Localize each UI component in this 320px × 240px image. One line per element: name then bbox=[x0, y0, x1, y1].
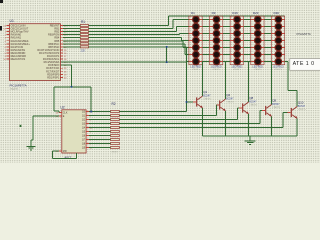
svg-text:Q9: Q9 bbox=[272, 99, 276, 103]
svg-text:<TEXT>: <TEXT> bbox=[233, 68, 242, 71]
svg-text:<TEXT>: <TEXT> bbox=[249, 103, 258, 106]
svg-text:LED-RED: LED-RED bbox=[273, 65, 284, 68]
svg-text:R1: R1 bbox=[81, 20, 85, 24]
text overlay ATE 10 bbox=[290, 59, 320, 71]
wire R1 to LED matrix staircase (8 nets) bbox=[89, 16, 187, 62]
svg-text:LED-RED: LED-RED bbox=[191, 65, 202, 68]
wire U2 E pin to ground bbox=[31, 116, 59, 147]
U1 right pins with pin numbers bbox=[37, 25, 67, 80]
svg-text:D1: D1 bbox=[191, 11, 195, 15]
transistor Q9 BC547 NPN bbox=[262, 99, 281, 117]
wire U1 port B pins to R1 bbox=[63, 26, 80, 47]
transistor Q10 BC547 NPN bbox=[288, 101, 307, 119]
svg-text:<TEXT>: <TEXT> bbox=[226, 100, 235, 103]
IC U1 PIC16F877A microcontroller bbox=[10, 19, 61, 91]
stray wire stub bbox=[20, 125, 22, 127]
svg-text:<TEXT>: <TEXT> bbox=[111, 151, 120, 154]
wire top bus over LED columns bbox=[169, 15, 285, 17]
svg-text:Q1: Q1 bbox=[203, 90, 207, 94]
wire U1 RC5 pin to U2 CLK (zigzag) and R2 tap bbox=[54, 65, 91, 112]
svg-text:LED-RED: LED-RED bbox=[211, 65, 222, 68]
wire LED column cathodes down to transistor collectors bbox=[202, 62, 297, 107]
svg-text:PIC16F877A: PIC16F877A bbox=[10, 84, 27, 88]
transistor Q2 BC547 NPN bbox=[216, 93, 235, 111]
svg-text:<TEXT>: <TEXT> bbox=[272, 106, 281, 109]
wire LED row buses bbox=[173, 20, 271, 62]
svg-text:Q10: Q10 bbox=[298, 101, 304, 105]
LED column D9 (7 red LEDs) bbox=[210, 11, 223, 71]
svg-text:BC547: BC547 bbox=[272, 103, 280, 106]
U1 left pins with pin numbers bbox=[3, 25, 30, 62]
svg-text:D23: D23 bbox=[253, 11, 259, 15]
LED column D30 (7 red LEDs) bbox=[271, 11, 284, 71]
wire R2 rails to transistor bases bbox=[119, 102, 287, 128]
svg-text:BC547: BC547 bbox=[203, 94, 211, 97]
svg-text:<TEXT>: <TEXT> bbox=[192, 68, 201, 71]
svg-text:Q8: Q8 bbox=[249, 96, 253, 100]
svg-text:D16: D16 bbox=[232, 11, 238, 15]
svg-text:R2: R2 bbox=[112, 102, 116, 106]
resistor pack R2 (10 resistors) bbox=[111, 102, 120, 153]
svg-text:ATE 1 0: ATE 1 0 bbox=[293, 61, 315, 67]
svg-text:BC547: BC547 bbox=[298, 105, 306, 108]
U2 left pins CLK, E, MR bbox=[56, 112, 68, 153]
svg-text:PISAVRITA: PISAVRITA bbox=[297, 32, 311, 36]
svg-text:<TEXT>: <TEXT> bbox=[10, 88, 20, 91]
svg-text:RE2/AN7/CS: RE2/AN7/CS bbox=[11, 58, 26, 61]
svg-text:<TEXT>: <TEXT> bbox=[203, 97, 212, 100]
transistor Q8 BC547 NPN bbox=[239, 96, 258, 114]
U2 right pins Q0-Q9 bbox=[82, 111, 93, 150]
ground bbox=[245, 141, 256, 145]
LED column D16 (7 red LEDs) bbox=[230, 11, 243, 71]
svg-text:<TEXT>: <TEXT> bbox=[212, 68, 221, 71]
svg-text:<TEXT>: <TEXT> bbox=[253, 68, 262, 71]
junction dots bbox=[71, 46, 188, 113]
wire U1 RC4 pin long net to Q1 base with tap to R1 net bbox=[61, 47, 187, 112]
svg-text:MR: MR bbox=[63, 150, 67, 153]
svg-text:220: 220 bbox=[81, 49, 86, 53]
screen corner marks bbox=[0, 0, 3, 31]
transistor Q1 BC547 NPN bbox=[193, 90, 212, 108]
ground bbox=[27, 146, 36, 149]
svg-text:<TEXT>: <TEXT> bbox=[274, 68, 283, 71]
LED column D1 (7 red LEDs) bbox=[189, 11, 202, 71]
svg-text:LED-RED: LED-RED bbox=[252, 65, 263, 68]
svg-text:U1: U1 bbox=[10, 19, 14, 23]
svg-text:<TEXT>: <TEXT> bbox=[298, 108, 307, 111]
svg-text:D9: D9 bbox=[212, 11, 216, 15]
svg-text:D30: D30 bbox=[273, 11, 279, 15]
svg-text:BC547: BC547 bbox=[226, 97, 234, 100]
svg-text:RD1/PSP1: RD1/PSP1 bbox=[47, 76, 60, 79]
resistor pack R1 (8 resistors, 220) bbox=[80, 20, 88, 52]
wire U2 outputs to R2 bbox=[89, 112, 111, 148]
wire U2 MR loop under chip bbox=[53, 151, 77, 159]
IC U2 4017 decade counter bbox=[61, 106, 87, 160]
LED column D23 (7 red LEDs) bbox=[251, 11, 264, 71]
svg-text:U2: U2 bbox=[61, 106, 65, 110]
svg-text:BC547: BC547 bbox=[249, 100, 257, 103]
wire transistor emitters to ground rail bbox=[203, 108, 298, 141]
svg-text:Q2: Q2 bbox=[226, 93, 230, 97]
svg-text:LED-RED: LED-RED bbox=[232, 65, 243, 68]
dotted grid background bbox=[0, 0, 320, 163]
